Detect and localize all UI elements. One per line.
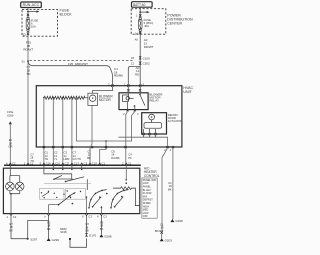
svg-text:10A: 10A (31, 25, 36, 29)
svg-text:TN: TN (26, 72, 30, 76)
svg-text:G203: G203 (165, 238, 173, 242)
svg-text:40A: 40A (144, 24, 149, 28)
wire BATT down through PDC (139, 7, 141, 17)
inline connector C100 (131, 56, 150, 60)
svg-text:RD/BK: RD/BK (114, 74, 123, 78)
HVAC unit label (183, 86, 193, 94)
relay top pin glyphs (127, 89, 141, 91)
svg-text:C1: C1 (102, 162, 106, 166)
svg-text:G298: G298 (175, 219, 183, 223)
rotary switch arc 2 (110, 190, 128, 209)
pin into PDC fuse (136, 14, 142, 18)
pin batt into HVAC (139, 82, 145, 87)
pins at HVAC bottom (43, 146, 174, 148)
svg-text:S1: S1 (22, 60, 26, 64)
actuator legs (144, 129, 156, 137)
wire feed to blower motor (93, 87, 113, 93)
relay bottom pins (127, 109, 136, 111)
relay pin numbers (123, 112, 139, 116)
blower feed label stack (114, 67, 123, 78)
svg-text:S297: S297 (30, 237, 37, 241)
svg-text:BK: BK (87, 156, 91, 160)
svg-text:RD/WT: RD/WT (23, 48, 33, 52)
actuator label (168, 113, 183, 123)
recirc door actuator box (142, 113, 167, 134)
pin switch ground out of control (44, 214, 50, 219)
inline connector C202 (131, 62, 150, 66)
svg-text:G299: G299 (52, 238, 60, 242)
relay label (149, 92, 163, 102)
wire S206 feed (7, 110, 14, 165)
pin out of PDC (135, 31, 142, 35)
pin 4 C3 out of control (97, 214, 107, 219)
fuse block label (60, 9, 73, 17)
relay coil ground wire (126, 111, 128, 165)
power distribution center (dashed box) (131, 9, 166, 35)
svg-text:LB/R: LB/R (64, 157, 70, 161)
svg-text:PK: PK (128, 156, 132, 160)
ground G298 (99, 216, 111, 239)
connector pins row1 (9, 163, 128, 165)
svg-text:BATT A0: BATT A0 (133, 3, 146, 7)
actuator motor symbol (144, 114, 162, 128)
svg-text:UNIT: UNIT (183, 90, 192, 94)
svg-text:ACTUATOR: ACTUATOR (168, 119, 183, 123)
svg-text:C100: C100 (143, 56, 151, 60)
svg-text:C3: C3 (103, 215, 107, 219)
svg-text:RELAY: RELAY (149, 98, 159, 102)
mode switch upper left wire (44, 165, 87, 190)
svg-text:C2: C2 (12, 162, 16, 166)
pin into fuse (27, 14, 29, 16)
pin 6 C3 out of control (82, 214, 92, 219)
resistor common wire to relay output (75, 98, 77, 141)
wire to S297 (9, 216, 48, 242)
svg-text:F25 18RD/WT: F25 18RD/WT (68, 62, 88, 66)
fuse F? 10A (26, 17, 38, 31)
fuse block (dashed box) (22, 10, 58, 37)
blower motor ground wire (90, 105, 92, 165)
svg-text:CENTER: CENTER (167, 21, 182, 25)
wire to C170 (60, 216, 96, 248)
illumination lamp 2 (15, 182, 24, 191)
svg-text:CONTROL: CONTROL (144, 174, 160, 178)
relay coil feed wire (128, 66, 140, 85)
svg-text:14: 14 (135, 31, 138, 35)
svg-text:A0: A0 (135, 38, 139, 42)
wire from RUN-ACC down through fuse block (27, 8, 29, 18)
svg-text:OR: OR (8, 145, 12, 149)
blower motor (88, 93, 114, 105)
node RUN-ACC feed (21, 2, 42, 8)
illumination lamp 1 (6, 182, 15, 191)
svg-text:GY/TN: GY/TN (73, 157, 81, 161)
junction arrow (other circuits) in fuse block (27, 10, 39, 12)
wire label A0 12 RD below C202 (135, 66, 140, 77)
pin lamp ground out of control (7, 214, 17, 219)
svg-text:BLOCK: BLOCK (60, 13, 73, 17)
relay output wire to resistor and pin (76, 111, 134, 141)
actuator bus wire (119, 137, 168, 147)
blower switch lower left (49, 194, 74, 214)
svg-text:S198: S198 (60, 230, 67, 234)
switch output stubs (86, 196, 103, 213)
wire label on RUN-ACC wire above connector (30, 153, 34, 163)
mode list box (142, 178, 157, 218)
svg-text:RD/WT: RD/WT (144, 45, 154, 49)
svg-text:12: 12 (131, 62, 134, 66)
illumination resistor (113, 165, 139, 205)
wire label relay coil gnd (128, 153, 132, 160)
wire label A0 12 RD (135, 38, 154, 49)
svg-text:C3: C3 (88, 215, 92, 219)
actuator wire A down (155, 148, 172, 242)
resistor tap wires (43, 97, 73, 165)
dashed wire to C100 (30, 60, 134, 62)
splice S1 (22, 60, 29, 64)
power distribution center label (167, 14, 193, 26)
main feed wire to HVAC blower pin (28, 61, 112, 85)
pin out of fuse block (23, 32, 29, 36)
svg-text:TN: TN (45, 157, 49, 161)
svg-text:OFF: OFF (143, 215, 148, 218)
svg-text:YL: YL (54, 157, 58, 161)
fuse 40A (138, 17, 153, 31)
svg-text:15: 15 (23, 32, 26, 36)
node BATT feed (132, 2, 153, 8)
HVAC unit box (36, 86, 182, 147)
svg-text:LB: LB (85, 229, 88, 233)
pin blower feed into HVAC (108, 82, 114, 87)
connector pin labels row1 (6, 162, 132, 166)
A/C-heater control box (3, 168, 139, 213)
svg-text:DG/BK: DG/BK (111, 156, 120, 160)
relay contact (134, 87, 145, 110)
svg-text:S206: S206 (7, 113, 14, 117)
wire labels above connector row (45, 150, 120, 162)
wire label below splice (26, 65, 30, 76)
actuator wire B down (168, 148, 183, 223)
svg-text:BK: BK (168, 187, 172, 191)
blower motor relay box (119, 93, 148, 110)
svg-text:BK: BK (100, 227, 104, 231)
wire label F25 18 RD/WT (23, 41, 33, 52)
ground G299 (47, 216, 60, 242)
relay coil (123, 87, 134, 110)
svg-text:18: 18 (131, 56, 134, 60)
A/C-heater control label (144, 167, 160, 178)
svg-text:BK: BK (47, 227, 51, 231)
svg-text:C202: C202 (143, 62, 151, 66)
svg-text:G298: G298 (104, 234, 112, 238)
svg-text:E170: E170 (89, 233, 96, 237)
svg-text:C1: C1 (128, 162, 132, 166)
junction arrow in PDC (139, 11, 149, 13)
switch contact boxes (40, 183, 92, 199)
switch stubs from connector (53, 165, 83, 170)
svg-text:C2: C2 (30, 162, 34, 166)
lamp ground wires (10, 191, 20, 214)
connector row C1/C2 at A/C-heater control (4, 164, 141, 166)
illumination lamp feed (10, 165, 20, 182)
actuator pins (142, 133, 156, 135)
svg-text:RUN-ACC: RUN-ACC (23, 3, 40, 7)
blower resistor zigzag (44, 96, 88, 99)
svg-text:MOTOR: MOTOR (99, 98, 112, 102)
svg-text:C2: C2 (13, 215, 17, 219)
wire relay output down (100, 141, 106, 165)
svg-text:BK: BK (9, 228, 13, 232)
rotary switch arc 1 (88, 190, 107, 209)
pin relay coil into HVAC (124, 82, 130, 87)
